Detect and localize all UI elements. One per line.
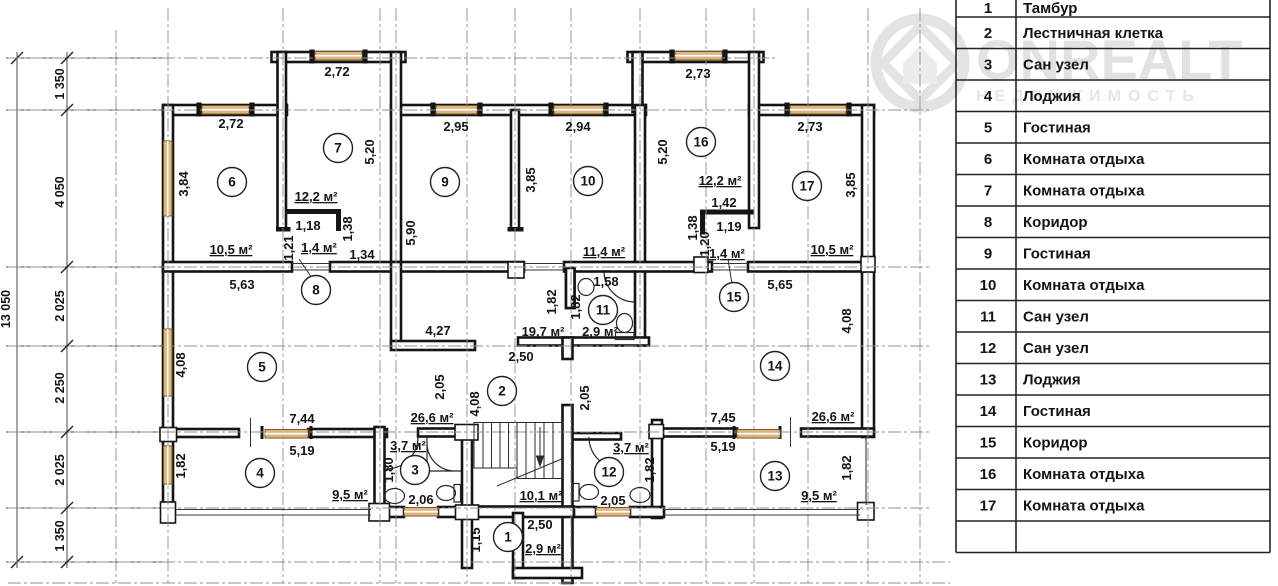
pier left wall bottom cross [161, 502, 176, 523]
wall: tambour right wall [563, 405, 573, 583]
svg-text:5,20: 5,20 [655, 139, 670, 164]
svg-text:2: 2 [498, 384, 506, 399]
wall: bottom wall bathroom 12 right part [630, 507, 664, 517]
room number circle 5 [248, 353, 277, 382]
staircase [474, 423, 564, 487]
svg-text:2,72: 2,72 [218, 116, 243, 131]
door threshold marks [251, 264, 791, 448]
svg-text:16: 16 [693, 135, 709, 150]
svg-text:1,82: 1,82 [839, 455, 854, 480]
dimension tick slashes [11, 52, 73, 568]
window 2-72 bay room7 [315, 52, 362, 61]
legend row 8 Коридор [984, 214, 1088, 231]
wall: top exterior wall left segment [163, 105, 287, 115]
svg-text:7: 7 [984, 183, 992, 200]
svg-text:1,18: 1,18 [295, 218, 320, 233]
window 2-73 right [790, 106, 846, 115]
wall: middle wall segment b [330, 262, 524, 272]
room 16 closet left wall [700, 213, 705, 235]
svg-text:1,21: 1,21 [281, 235, 296, 260]
svg-text:Лоджия: Лоджия [1023, 372, 1081, 389]
wall: bathroom 3 left wall [375, 427, 385, 518]
svg-text:11,4 м²: 11,4 м² [583, 244, 626, 259]
window 1-82 left wall [164, 446, 173, 484]
wall: left exterior wall [163, 105, 173, 512]
bathroom 12 door arc [589, 437, 621, 469]
svg-text:17: 17 [799, 179, 814, 194]
svg-text:4,08: 4,08 [467, 391, 482, 416]
legend row 6 Комната отдыха [984, 151, 1145, 168]
svg-text:13: 13 [980, 372, 997, 389]
loggia 13 bottom railing [664, 437, 866, 515]
wall: middle wall segment d [748, 262, 874, 272]
svg-text:2,94: 2,94 [565, 119, 591, 134]
wall: bottom wall bathroom 12 left part [574, 507, 596, 517]
svg-text:1 350: 1 350 [53, 68, 67, 99]
room number circle 1 [494, 523, 523, 552]
bathroom 11 toilet [616, 314, 635, 340]
window end posts [196, 50, 851, 440]
svg-text:Гостиная: Гостиная [1023, 246, 1091, 263]
room number circle 15 [720, 283, 749, 312]
svg-text:1,38: 1,38 [340, 216, 355, 241]
svg-text:НЕДВИЖИМОСТЬ: НЕДВИЖИМОСТЬ [976, 88, 1201, 105]
svg-text:1,82: 1,82 [568, 294, 583, 319]
svg-text:5: 5 [984, 120, 992, 137]
svg-text:26,6 м²: 26,6 м² [812, 409, 856, 424]
room number circle 8 [302, 276, 331, 305]
svg-text:3: 3 [984, 57, 992, 74]
wall: top exterior wall middle segment [391, 105, 646, 115]
svg-text:3,7 м²: 3,7 м² [613, 440, 649, 455]
wall: partition rooms 6 and 7 with bay wall [278, 52, 287, 230]
svg-text:10: 10 [980, 277, 997, 294]
svg-text:2,50: 2,50 [508, 349, 533, 364]
svg-text:12,2 м²: 12,2 м² [699, 173, 743, 188]
bathroom 12 sink [630, 488, 650, 503]
svg-text:9,5 м²: 9,5 м² [801, 488, 837, 503]
svg-text:5,63: 5,63 [229, 277, 254, 292]
svg-text:1: 1 [504, 530, 512, 545]
svg-text:Тамбур: Тамбур [1023, 0, 1077, 17]
svg-text:1,82: 1,82 [544, 289, 559, 314]
window 2-73 bay room16 [675, 52, 722, 61]
svg-text:6: 6 [984, 151, 992, 168]
window 2-72 left [202, 106, 249, 115]
svg-text:9,5 м²: 9,5 м² [332, 487, 368, 502]
wall: tambour right wall pier [563, 338, 573, 360]
svg-text:19,7 м²: 19,7 м² [522, 324, 566, 339]
wall: wall between rooms 10 and 16 [635, 105, 645, 346]
svg-text:7,45: 7,45 [710, 410, 735, 425]
svg-text:3: 3 [411, 463, 419, 478]
pier loggia 13 top left [649, 425, 664, 439]
wall: bathroom 3 top wall [418, 429, 464, 437]
svg-text:Сан узел: Сан узел [1023, 340, 1089, 357]
svg-text:11: 11 [980, 309, 996, 326]
svg-text:4,08: 4,08 [173, 352, 188, 377]
svg-text:Гостиная: Гостиная [1023, 120, 1091, 137]
wall: party wall right of bathroom 12 [652, 420, 662, 518]
window 2-95 [436, 106, 477, 115]
svg-text:6: 6 [228, 175, 236, 190]
loggia 13 railing window [737, 430, 780, 439]
svg-text:13: 13 [767, 469, 783, 484]
svg-text:2,05: 2,05 [432, 374, 447, 399]
svg-text:7,44: 7,44 [289, 411, 315, 426]
svg-text:Комната отдыха: Комната отдыха [1023, 151, 1145, 168]
legend row 2 Лестничная клетка [984, 25, 1164, 42]
svg-text:4: 4 [256, 466, 264, 481]
svg-text:3,85: 3,85 [523, 167, 538, 192]
pier right wall at middle wall [861, 257, 875, 273]
room number circle 6 [218, 168, 247, 197]
bathroom 11 sink [578, 279, 594, 296]
wall: porch left wall [513, 513, 523, 578]
wall: wall between rooms 7 and 9 [391, 52, 401, 271]
svg-text:2 025: 2 025 [53, 454, 67, 485]
svg-text:10: 10 [580, 174, 595, 189]
wall: loggia 4 top wall right part [308, 429, 387, 437]
svg-text:2 250: 2 250 [53, 372, 67, 403]
svg-text:5,19: 5,19 [289, 443, 314, 458]
room number circle 11 [589, 296, 618, 325]
bathroom 3 door arc [386, 437, 418, 469]
svg-text:8: 8 [984, 214, 992, 231]
wall: partition rooms 9 and 10 [511, 110, 519, 230]
svg-text:2,06: 2,06 [408, 492, 433, 507]
wall: tambour bottom wall [462, 507, 574, 518]
svg-text:5,90: 5,90 [403, 220, 418, 245]
wall: bottom wall bathroom 3 left part [375, 507, 405, 517]
svg-text:1,15: 1,15 [468, 527, 483, 552]
wall: middle wall segment a [163, 262, 292, 272]
svg-text:2,73: 2,73 [685, 66, 710, 81]
svg-text:Комната отдыха: Комната отдыха [1023, 466, 1145, 483]
svg-text:Сан узел: Сан узел [1023, 57, 1089, 74]
svg-text:Коридор: Коридор [1023, 435, 1088, 452]
pier middle wall room15 door [694, 257, 708, 273]
wall: loggia 13 top wall right part [801, 429, 874, 437]
svg-text:8: 8 [312, 283, 320, 298]
grid axis lines [8, 8, 950, 583]
svg-text:26,6 м²: 26,6 м² [411, 410, 455, 425]
legend row 4 Лоджия [984, 88, 1081, 105]
room number circle 7 [324, 134, 353, 163]
legend row 7 Комната отдыха [984, 183, 1145, 200]
svg-text:4 050: 4 050 [53, 176, 67, 207]
svg-text:2,9 м²: 2,9 м² [525, 541, 561, 556]
svg-text:14: 14 [980, 403, 997, 420]
svg-text:Гостиная: Гостиная [1023, 403, 1091, 420]
room number circle 14 [761, 352, 790, 381]
bathroom 3 shower [427, 437, 461, 471]
svg-text:15: 15 [980, 435, 997, 452]
svg-text:Лестничная клетка: Лестничная клетка [1023, 25, 1164, 42]
svg-text:9: 9 [441, 175, 449, 190]
legend row 12 Сан узел [980, 340, 1089, 357]
pier stairwell wall top [455, 425, 478, 441]
legend row 15 Коридор [980, 435, 1088, 452]
svg-text:1,58: 1,58 [593, 274, 618, 289]
room number circle 4 [246, 459, 275, 488]
svg-text:4: 4 [984, 88, 993, 105]
svg-text:Лоджия: Лоджия [1023, 88, 1081, 105]
svg-text:1,82: 1,82 [642, 457, 657, 482]
legend row 10 Комната отдыха [980, 277, 1145, 294]
room 7 closet top wall [285, 209, 341, 214]
room number circle 16 [687, 128, 716, 157]
svg-text:3,85: 3,85 [843, 172, 858, 197]
svg-text:17: 17 [980, 498, 997, 515]
svg-text:14: 14 [767, 359, 783, 374]
svg-text:1,82: 1,82 [173, 453, 188, 478]
legend row 13 Лоджия [980, 372, 1081, 389]
legend row 16 Комната отдыха [980, 466, 1145, 483]
svg-text:5: 5 [258, 360, 266, 375]
svg-text:1,4 м²: 1,4 м² [709, 246, 745, 261]
loggia 4 railing window [265, 430, 308, 439]
wall: porch bottom wall [513, 568, 582, 578]
svg-text:1,4 м²: 1,4 м² [301, 240, 337, 255]
wall: hall wall 4-27 [391, 341, 475, 350]
legend row 1 Тамбур [984, 0, 1078, 17]
bathroom 3 sink [385, 489, 405, 504]
legend table frame [956, 0, 1270, 553]
wall: wall right of room 5 [391, 262, 401, 346]
window bathroom 3 bottom [404, 508, 438, 517]
svg-text:12: 12 [601, 465, 616, 480]
svg-text:2,05: 2,05 [600, 493, 625, 508]
svg-text:1: 1 [984, 0, 992, 17]
svg-text:12: 12 [980, 340, 997, 357]
svg-text:2,72: 2,72 [324, 64, 349, 79]
room number circle 10 [574, 167, 603, 196]
watermark logo circle [876, 19, 964, 107]
watermark logo house inner [903, 46, 937, 84]
svg-text:1,19: 1,19 [716, 219, 741, 234]
svg-text:4,27: 4,27 [425, 323, 450, 338]
svg-text:2,95: 2,95 [443, 119, 468, 134]
pier stairwell wall at bottom wall [456, 505, 479, 520]
leader line room 8 [299, 259, 312, 278]
svg-text:13 050: 13 050 [0, 290, 13, 328]
wall: bathroom 11 bottom wall [518, 338, 649, 346]
legend row 17 Комната отдыха [980, 498, 1145, 515]
svg-text:9: 9 [984, 246, 992, 263]
window 2-94 [554, 106, 603, 115]
wall: wall between rooms 16 and 17 [749, 52, 759, 228]
room 7 closet right wall [336, 212, 341, 231]
room number circle 13 [761, 462, 790, 491]
room number circle 3 [401, 456, 430, 485]
wall: right exterior wall [862, 105, 874, 437]
svg-text:Комната отдыха: Комната отдыха [1023, 498, 1145, 515]
wall: loggia 4 top wall left part [176, 429, 239, 437]
wall: bay room7 top wall [272, 52, 406, 62]
window bathroom 12 bottom [596, 508, 630, 517]
wall: bathroom 12 top wall [567, 433, 621, 440]
pier bathroom11 wall top [508, 262, 524, 278]
leader line room 15 [728, 259, 732, 284]
svg-text:7: 7 [334, 141, 342, 156]
pier bathroom 3 bottom left cross [369, 504, 390, 522]
legend row 5 Гостиная [984, 120, 1091, 137]
pier left wall at loggia wall [160, 428, 177, 442]
svg-text:10,1 м²: 10,1 м² [520, 488, 564, 503]
svg-text:Комната отдыха: Комната отдыха [1023, 183, 1145, 200]
svg-text:Коридор: Коридор [1023, 214, 1088, 231]
wall: bottom wall bathroom 3 right part [438, 507, 467, 517]
partition 6-7 end cap [276, 227, 291, 232]
bathroom 3 toilet [437, 485, 461, 503]
room number circle 12 [595, 458, 624, 487]
svg-text:15: 15 [726, 290, 742, 305]
wall: room 16 closet partition wall [566, 268, 575, 308]
svg-text:5,65: 5,65 [767, 277, 792, 292]
bathroom 11 shower arc [604, 272, 635, 302]
room number circle 9 [431, 168, 460, 197]
partition 9-10 end cap [508, 227, 524, 232]
svg-text:4,08: 4,08 [839, 308, 854, 333]
wall: bay room16 top wall [628, 52, 764, 62]
svg-text:2,73: 2,73 [797, 119, 822, 134]
svg-text:Комната отдыха: Комната отдыха [1023, 277, 1145, 294]
svg-text:10,5 м²: 10,5 м² [210, 242, 254, 257]
svg-text:2,50: 2,50 [527, 517, 552, 532]
wall: stairwell left wall [462, 427, 472, 568]
window 4-08 left wall [164, 329, 173, 396]
legend row 14 Гостиная [980, 403, 1091, 420]
legend row 3 Сан узел [984, 57, 1089, 74]
window 3-84 left wall [164, 141, 173, 216]
loggia 4 bottom railing [176, 510, 371, 516]
wall: loggia 13 top wall left part [650, 429, 737, 437]
legend row 9 Гостиная [984, 246, 1091, 263]
wall: top exterior wall right segment [749, 105, 874, 115]
svg-text:5,19: 5,19 [710, 439, 735, 454]
svg-text:1,42: 1,42 [711, 195, 736, 210]
svg-text:3,7 м²: 3,7 м² [390, 438, 426, 453]
svg-text:2,9 м²: 2,9 м² [582, 324, 618, 339]
svg-text:2 025: 2 025 [53, 290, 67, 321]
svg-text:1 350: 1 350 [53, 520, 67, 551]
bathroom 12 toilet [573, 484, 599, 502]
wall: bay room16 left wall [633, 52, 643, 112]
svg-text:10,5 м²: 10,5 м² [811, 242, 855, 257]
room number circle 17 [793, 172, 822, 201]
svg-text:3,84: 3,84 [176, 171, 191, 197]
svg-text:5,20: 5,20 [362, 139, 377, 164]
svg-text:1,34: 1,34 [349, 247, 375, 262]
legend row 11 Сан узел [980, 309, 1089, 326]
wall: bathroom 11 partition [566, 268, 575, 308]
svg-text:11: 11 [596, 303, 611, 318]
room 16 closet top wall [700, 210, 754, 215]
dimension chain lines [6, 52, 168, 568]
svg-text:16: 16 [980, 466, 997, 483]
wall: middle wall segment c [564, 262, 712, 272]
pier loggia 13 bottom right cross [858, 503, 875, 521]
svg-text:12,2 м²: 12,2 м² [295, 189, 339, 204]
svg-text:Сан узел: Сан узел [1023, 309, 1089, 326]
watermark logo house diamond [883, 26, 957, 100]
svg-text:1,80: 1,80 [381, 457, 396, 482]
svg-text:2,05: 2,05 [577, 385, 592, 410]
room number circle 2 [488, 377, 517, 406]
svg-text:2: 2 [984, 25, 992, 42]
